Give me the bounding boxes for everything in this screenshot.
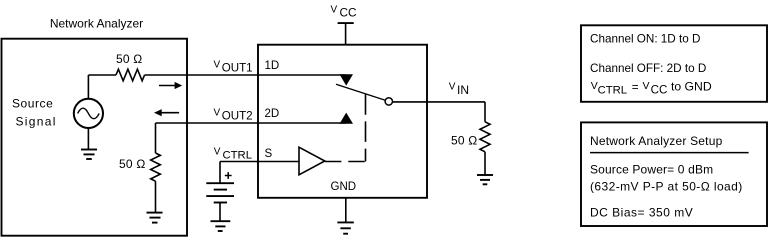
svg-text:V: V [449,82,456,93]
svg-text:Network Analyzer Setup: Network Analyzer Setup [590,134,723,148]
svg-text:V: V [643,80,650,92]
svg-text:Source Power= 0 dBm: Source Power= 0 dBm [590,162,713,176]
svg-text:1D: 1D [265,60,280,72]
svg-text:Source: Source [12,97,53,111]
svg-text:Network Analyzer: Network Analyzer [50,16,143,30]
svg-text:Signal: Signal [16,114,57,128]
svg-text:DC Bias= 350 mV: DC Bias= 350 mV [590,206,693,220]
svg-text:CC: CC [340,6,358,20]
svg-text:V: V [331,5,338,16]
svg-text:50 Ω: 50 Ω [119,157,145,171]
svg-text:GND: GND [331,181,357,193]
svg-text:V: V [214,60,221,71]
svg-text:CTRL: CTRL [223,150,253,162]
svg-text:Channel OFF: 2D to D: Channel OFF: 2D to D [590,62,706,75]
svg-text:50 Ω: 50 Ω [116,52,142,66]
svg-text:CC: CC [651,83,668,96]
svg-text:2D: 2D [265,108,280,120]
svg-text:Channel ON: 1D to D: Channel ON: 1D to D [590,32,700,45]
svg-text:OUT2: OUT2 [222,110,253,123]
svg-text:CTRL: CTRL [598,84,628,96]
svg-text:to GND: to GND [671,80,712,94]
svg-text:V: V [214,108,221,119]
svg-text:(632-mV P-P at 50-Ω load): (632-mV P-P at 50-Ω load) [590,179,743,193]
svg-text:IN: IN [457,83,469,97]
svg-text:OUT1: OUT1 [222,62,253,75]
svg-text:=: = [632,81,639,94]
svg-text:S: S [265,148,273,160]
svg-text:V: V [214,146,221,157]
svg-text:50 Ω: 50 Ω [451,133,477,147]
